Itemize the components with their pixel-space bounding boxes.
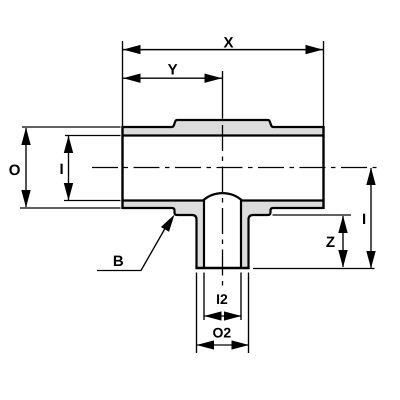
- body bottom outer profile right with step and fillet: [249, 208, 324, 268]
- extension lines I2 (branch bore): [203, 273, 205, 321]
- branch bore left wall: [203, 201, 205, 269]
- extension line right (X): [323, 41, 325, 126]
- extension line Z (step level, right): [273, 214, 352, 216]
- leader B with arrow to step radius: [97, 215, 175, 271]
- extension lines O (left outer): [22, 126, 121, 128]
- horizontal centerline: [92, 167, 377, 169]
- dimension I2: [204, 291, 242, 321]
- bore bottom inner line with branch bore dome: [123, 193, 324, 200]
- tee body bottom-right wall + branch right wall (gray section fill): [241, 201, 324, 269]
- dimension O: [9, 128, 31, 208]
- extension lines I (left inner): [65, 135, 121, 137]
- svg-text:Z: Z: [326, 234, 335, 251]
- body left end face: [121, 126, 123, 209]
- svg-text:Y: Y: [168, 62, 178, 79]
- dimension Z: [326, 216, 348, 268]
- dimension O2: [197, 325, 250, 350]
- svg-text:I2: I2: [216, 291, 228, 307]
- tee body bottom-left wall + branch left wall (gray section fill): [123, 201, 205, 269]
- svg-text:O2: O2: [213, 325, 232, 341]
- dimension I left: [60, 136, 74, 201]
- body top outer profile with boss: [123, 120, 324, 127]
- extension line left (X/Y): [122, 41, 124, 126]
- svg-text:X: X: [223, 35, 233, 52]
- extension line bottom right (branch end level): [253, 268, 375, 270]
- svg-text:I: I: [60, 161, 64, 178]
- vertical centerline: [222, 119, 224, 291]
- bore top inner line: [123, 134, 324, 136]
- extension line Y right: [222, 71, 224, 119]
- svg-text:O: O: [9, 162, 21, 179]
- extension lines O2 (branch outer): [196, 273, 198, 354]
- svg-text:B: B: [113, 253, 124, 270]
- dimension I right: [362, 168, 376, 269]
- svg-text:I: I: [362, 211, 366, 228]
- branch bore right wall: [240, 201, 242, 269]
- dimension Y: [123, 62, 222, 83]
- body bottom outer profile left with step and fillet: [123, 208, 197, 268]
- tee body top wall (gray section fill): [123, 120, 324, 136]
- dimension X: [123, 35, 323, 55]
- body right end face: [322, 126, 324, 209]
- branch bottom end face: [195, 267, 249, 269]
